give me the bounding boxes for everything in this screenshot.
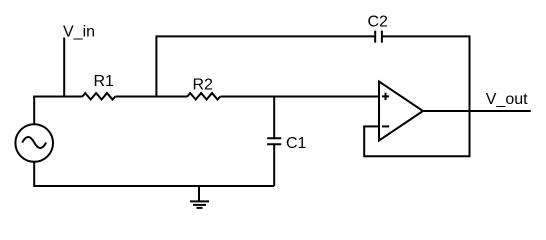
wire: feedback left vertical bbox=[363, 126, 365, 157]
svg-text:C2: C2 bbox=[368, 13, 389, 30]
op-amp U1 bbox=[379, 82, 423, 141]
wire: input rail from corner to R1 bbox=[33, 96, 82, 98]
capacitor C1 bbox=[267, 135, 306, 152]
wire: bottom rail from source to C1 bbox=[34, 162, 274, 186]
wire: rail from R2 to op-amp noninverting input bbox=[220, 96, 379, 98]
AC source V1 bbox=[15, 124, 53, 162]
svg-text:V_out: V_out bbox=[486, 91, 528, 108]
wire: rail between R1 and R2 bbox=[115, 96, 187, 98]
svg-text:V_in: V_in bbox=[63, 23, 95, 40]
wire: inverting input lead bbox=[363, 125, 379, 127]
wire: feedback bottom segment bbox=[364, 155, 469, 157]
wire: top feedback right segment bbox=[382, 35, 470, 37]
wire: V_in stub bbox=[63, 38, 65, 97]
resistor R1 bbox=[82, 73, 115, 100]
wire: top feedback left segment bbox=[156, 35, 375, 37]
wire: output node vertical bbox=[469, 35, 471, 157]
wire: source top lead up to input rail corner bbox=[33, 97, 35, 125]
ground bbox=[190, 186, 209, 208]
svg-text:R2: R2 bbox=[193, 76, 214, 93]
svg-text:R1: R1 bbox=[94, 73, 115, 90]
svg-text:C1: C1 bbox=[286, 135, 307, 152]
wire: junction riser to top feedback bbox=[155, 35, 157, 96]
wire: output bbox=[423, 110, 531, 112]
wire: C1 branch upper bbox=[273, 97, 275, 139]
wire: C1 branch lower bbox=[273, 144, 275, 186]
capacitor C2 bbox=[368, 13, 389, 42]
resistor R2 bbox=[187, 76, 220, 99]
